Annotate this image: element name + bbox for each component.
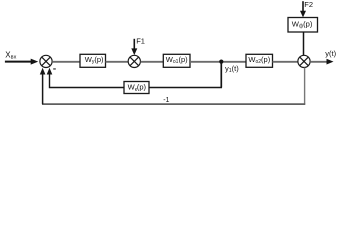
block W_u(p) U1 (80, 54, 106, 67)
node junction dot A (219, 60, 223, 64)
block W_k(p) U5 (124, 82, 149, 94)
wire F2 arrow into filter block (300, 1, 306, 17)
wire W2 to W3 (190, 61, 246, 63)
node minus sign at S1 (53, 68, 56, 69)
svg-text:Wк(p): Wк(p) (128, 83, 147, 93)
wire node A down to inner feedback (220, 62, 222, 88)
wire W1 to S2 (106, 61, 129, 63)
svg-text:y1(t): y1(t) (225, 64, 239, 74)
svg-text:y(t): y(t) (325, 49, 336, 58)
wire filter block to S3 (303, 32, 305, 55)
wire S1 to W1 (52, 61, 80, 63)
block W_f(p) U4 (288, 18, 318, 33)
wire W3 to S3 (273, 61, 299, 63)
svg-text:Wф(p): Wф(p) (292, 19, 313, 29)
wire outer feedback left vertical up to S1 arrow (40, 68, 46, 104)
wire S2 to W2 (141, 61, 164, 63)
svg-text:Wу(p): Wу(p) (85, 55, 104, 65)
wire W_k to S1 bottom arrow (47, 68, 124, 88)
wire F1 arrow down into S2 (131, 39, 137, 55)
block W_o1(p) U2 (163, 54, 190, 67)
summer S1 (40, 55, 52, 67)
svg-text:F2: F2 (304, 0, 313, 9)
wire outer feedback S3 down (right vertical) (304, 68, 306, 104)
wire inner feedback right segment (149, 87, 222, 89)
summer S2 (128, 55, 140, 67)
wire outer feedback bottom horizontal (42, 103, 305, 105)
svg-text:-1: -1 (163, 97, 169, 104)
wire output arrow (310, 59, 333, 65)
summer S3 (298, 55, 310, 67)
wire input arrow (5, 59, 38, 65)
block W_o2(p) U3 (246, 54, 273, 67)
svg-text:F1: F1 (136, 37, 145, 46)
